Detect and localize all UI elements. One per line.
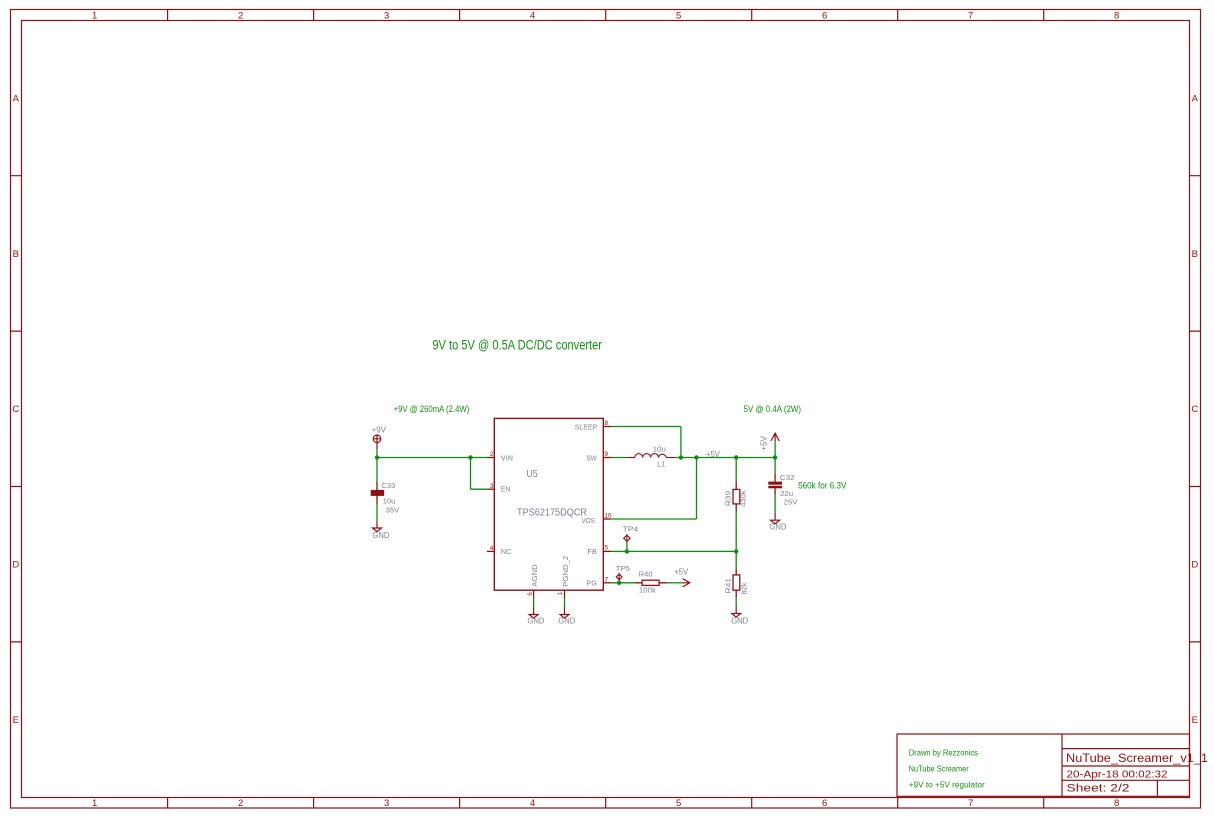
svg-text:C32: C32 [780, 473, 795, 482]
svg-text:4: 4 [490, 545, 494, 552]
wire SLEEP horizontal [611, 426, 681, 428]
svg-text:5V @ 0.4A (2W): 5V @ 0.4A (2W) [744, 404, 801, 414]
svg-text:R41: R41 [724, 578, 733, 594]
U5 pin 5 FB stub [603, 550, 611, 552]
wire FB horizontal [611, 550, 736, 552]
svg-text:6: 6 [527, 592, 534, 596]
test point TP5 [616, 573, 622, 581]
svg-text:8: 8 [1114, 798, 1119, 809]
U5 pin 8 SLEEP stub [603, 426, 611, 428]
svg-text:3: 3 [384, 10, 389, 21]
U5 pin 6 AGND stub [533, 590, 535, 597]
+9V supply symbol [373, 435, 381, 450]
wire VOS vertical [696, 458, 698, 520]
junction C32 branch [773, 455, 777, 459]
svg-text:82k: 82k [740, 582, 749, 594]
ground below PGND_2 [560, 607, 569, 618]
svg-text:+9V: +9V [372, 426, 387, 435]
junction SLEEP/SW [679, 455, 683, 459]
svg-text:4: 4 [530, 798, 535, 809]
U5 pin 10 VOS stub [603, 518, 611, 520]
svg-text:GND: GND [769, 523, 786, 532]
svg-text:2: 2 [238, 10, 243, 21]
wire L1 out [676, 457, 681, 459]
svg-text:SLEEP: SLEEP [575, 423, 598, 432]
svg-text:VIN: VIN [501, 453, 513, 462]
svg-text:8: 8 [1114, 10, 1119, 21]
svg-text:Sheet: 2/2: Sheet: 2/2 [1067, 783, 1130, 795]
svg-text:6: 6 [822, 10, 827, 21]
svg-text:R39: R39 [723, 491, 732, 507]
wire R40 to arrow [667, 582, 683, 584]
junction EN branch [468, 455, 472, 459]
svg-text:3: 3 [490, 483, 494, 490]
wire R39 top [735, 458, 737, 482]
svg-text:6: 6 [822, 798, 827, 809]
junction VOS [694, 455, 698, 459]
svg-text:VOS: VOS [582, 516, 595, 525]
wire +5V to C32 [774, 458, 776, 474]
svg-text:A: A [1192, 93, 1199, 104]
wire C33 bottom to GND [376, 504, 378, 521]
junction R39 top [734, 455, 738, 459]
svg-text:GND: GND [731, 617, 748, 626]
svg-text:1: 1 [557, 591, 564, 595]
TP5 wire stub [618, 581, 620, 583]
wire SW to L1 [611, 457, 627, 459]
svg-text:TP4: TP4 [623, 524, 639, 533]
junction TP5 on PG [617, 581, 621, 585]
wire PG horizontal [611, 582, 635, 584]
svg-text:100k: 100k [639, 585, 656, 594]
wire +5V net horizontal [681, 457, 775, 459]
svg-text:2: 2 [490, 451, 494, 458]
svg-text:D: D [1191, 560, 1198, 571]
svg-text:5: 5 [676, 10, 681, 21]
svg-text:A: A [13, 93, 20, 104]
svg-text:D: D [12, 560, 19, 571]
ground below C33 [373, 521, 382, 532]
svg-text:9: 9 [605, 451, 609, 458]
wire R41 bottom [735, 598, 737, 607]
svg-text:2: 2 [238, 798, 243, 809]
capacitor C32 [768, 473, 782, 494]
svg-text:10u: 10u [653, 444, 666, 453]
svg-text:9V to 5V @ 0.5A DC/DC converte: 9V to 5V @ 0.5A DC/DC converter [432, 337, 602, 352]
svg-text:NuTube Screamer: NuTube Screamer [909, 764, 969, 774]
wire +9V horizontal to VIN [377, 457, 488, 459]
svg-text:AGND: AGND [530, 564, 539, 587]
svg-text:5: 5 [605, 545, 609, 552]
svg-text:U5: U5 [526, 469, 538, 480]
svg-text:GND: GND [527, 617, 544, 626]
capacitor C33 [371, 481, 385, 504]
svg-text:7: 7 [605, 577, 609, 584]
svg-text:7: 7 [968, 10, 973, 21]
U5 pin 4 NC stub [487, 550, 494, 552]
svg-text:C33: C33 [381, 481, 395, 490]
svg-text:GND: GND [372, 531, 389, 540]
svg-text:EN: EN [501, 485, 510, 494]
wire to C33 top [376, 458, 378, 482]
svg-text:GND: GND [558, 617, 575, 626]
IC U5 TPS62175DQCR body [494, 418, 603, 590]
svg-text:430k: 430k [739, 490, 748, 507]
svg-text:PGND_2: PGND_2 [561, 556, 570, 587]
svg-text:+9V @ 260mA (2.4W): +9V @ 260mA (2.4W) [394, 404, 470, 414]
junction TP4 on FB [625, 549, 629, 553]
test point TP4 [624, 534, 630, 543]
wire SLEEP vertical [680, 427, 682, 458]
resistor R40 [635, 580, 667, 585]
svg-text:B: B [1192, 249, 1198, 260]
junction FB R39 R41 [734, 549, 738, 553]
svg-text:FB: FB [587, 547, 597, 556]
U5 pin 2 VIN stub [487, 457, 494, 459]
svg-text:4: 4 [530, 10, 535, 21]
wire C32 to GND [774, 495, 776, 513]
ground below C32 [771, 512, 780, 524]
svg-text:R40: R40 [639, 569, 653, 578]
U5 pin 9 SW stub [603, 457, 611, 459]
svg-text:SW: SW [586, 453, 597, 462]
+5V arrow symbol [771, 433, 779, 442]
TP4 wire stub [626, 543, 628, 552]
wire R41 top [735, 551, 737, 568]
svg-text:E: E [1192, 715, 1198, 726]
wire supply stub [376, 450, 378, 458]
wire R39 bottom to FB net [735, 512, 737, 552]
svg-text:NC: NC [501, 547, 511, 556]
svg-text:C: C [1191, 404, 1198, 415]
svg-text:+5V: +5V [674, 567, 689, 576]
svg-text:+9V to +5V regulator: +9V to +5V regulator [909, 780, 985, 790]
U5 pin 1 PGND_2 stub [564, 590, 566, 597]
resistor R41 [733, 568, 740, 598]
svg-text:20-Apr-18 00:02:32: 20-Apr-18 00:02:32 [1067, 769, 1168, 780]
svg-text:7: 7 [968, 798, 973, 809]
svg-text:C: C [12, 404, 19, 415]
svg-text:E: E [13, 715, 19, 726]
wire EN branch horizontal [471, 488, 489, 490]
svg-text:5: 5 [676, 798, 681, 809]
svg-text:NuTube_Screamer_v1_1: NuTube_Screamer_v1_1 [1066, 751, 1208, 765]
svg-text:560k for 6.3V: 560k for 6.3V [798, 481, 846, 491]
svg-text:TPS62175DQCR: TPS62175DQCR [517, 508, 587, 519]
U5 pin 7 PG stub [603, 582, 611, 584]
svg-text:PG: PG [586, 579, 597, 588]
svg-text:B: B [13, 249, 19, 260]
wire to +5V arrow [774, 442, 776, 458]
svg-text:L1: L1 [657, 460, 665, 469]
inductor L1 [627, 454, 676, 458]
junction +9V at C33 [375, 455, 379, 459]
wire EN branch vertical [470, 458, 472, 490]
U5 pin 3 EN stub [487, 488, 494, 490]
svg-text:10: 10 [605, 513, 613, 520]
wire AGND pin to ground [533, 598, 535, 608]
svg-text:TP5: TP5 [616, 564, 630, 573]
svg-text:1: 1 [92, 798, 97, 809]
svg-text:35V: 35V [386, 506, 400, 515]
svg-text:1: 1 [92, 10, 97, 21]
svg-text:8: 8 [605, 420, 609, 427]
ground below AGND [529, 607, 538, 618]
wire VOS horizontal [611, 518, 697, 520]
svg-text:10u: 10u [383, 497, 396, 506]
ground below R41 [732, 607, 741, 618]
+5V right arrow symbol [682, 579, 690, 587]
svg-text:3: 3 [384, 798, 389, 809]
svg-text:25V: 25V [784, 497, 798, 506]
svg-text:+5V: +5V [706, 450, 721, 459]
svg-text:+5V: +5V [759, 435, 768, 451]
wire PGND pin to ground [564, 598, 566, 608]
resistor R39 [733, 481, 740, 512]
svg-text:Drawn by Rezzonics: Drawn by Rezzonics [909, 748, 978, 758]
